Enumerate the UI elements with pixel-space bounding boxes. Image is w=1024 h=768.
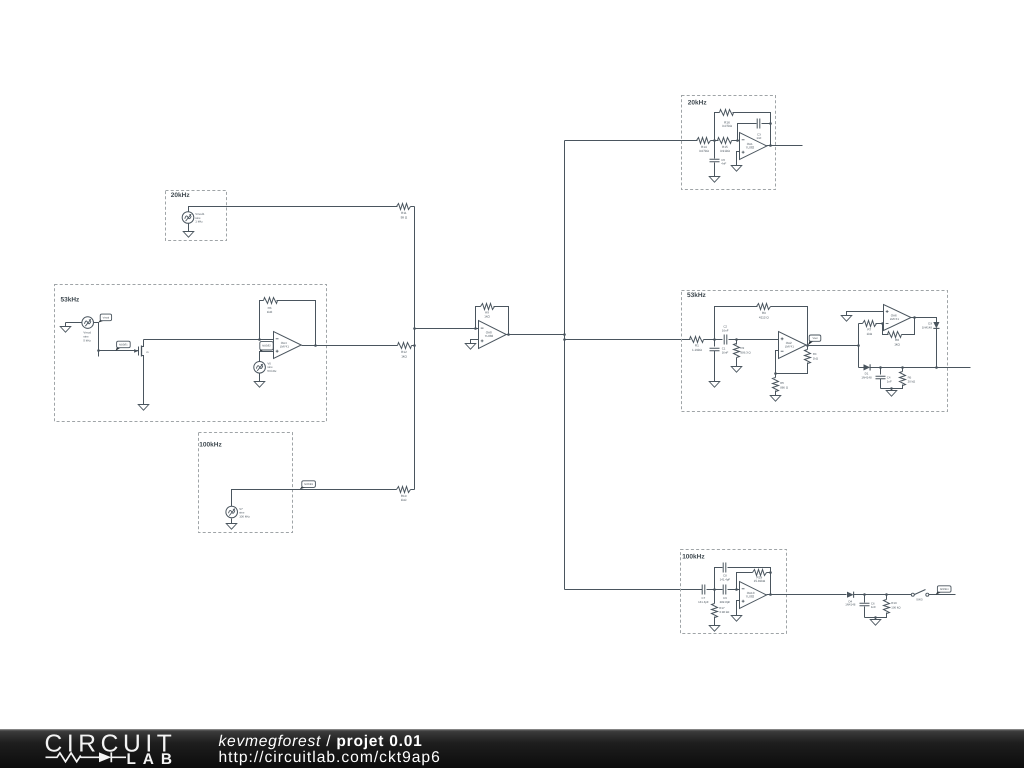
svg-text:LM741: LM741 [890, 317, 900, 321]
capacitor C3 [757, 119, 760, 129]
ground below Vmod1 [188, 224, 190, 232]
resistor R15 [718, 138, 732, 144]
wire OA6 output to D3 [911, 318, 937, 323]
resistor R11 [397, 204, 411, 210]
svg-text:16nF: 16nF [722, 329, 729, 333]
ground below C1 [709, 382, 720, 388]
svg-text:1kΩ: 1kΩ [484, 315, 490, 319]
capacitor C7 [702, 585, 705, 595]
block box 100kHz filter [681, 550, 787, 634]
wire V7 to R10 [232, 490, 397, 507]
svg-text:LM741: LM741 [280, 345, 290, 349]
resistor R12 [398, 343, 412, 349]
resistor R5 [775, 374, 777, 378]
node OA10 output [769, 593, 772, 596]
svg-text:TL082: TL082 [746, 595, 755, 599]
node junction [97, 349, 100, 352]
svg-text:282.8pF: 282.8pF [720, 600, 731, 604]
wire bus to OA8 inverting [415, 328, 479, 330]
svg-text:NODE3: NODE3 [304, 483, 313, 486]
flag NODE4 [936, 590, 942, 595]
wire C8 to output [728, 568, 771, 595]
node R18 tap [735, 588, 738, 591]
diode D1 [864, 364, 871, 370]
svg-text:3.07kΩ: 3.07kΩ [699, 149, 710, 153]
block box 53kHz filter [682, 291, 948, 412]
wire C3 to output [762, 123, 771, 125]
svg-text:1nF: 1nF [871, 605, 876, 609]
flag NODE2 [260, 348, 264, 353]
node 20k input junction [713, 139, 716, 142]
diode D3 [933, 322, 939, 328]
svg-text:1N4148: 1N4148 [922, 326, 933, 330]
block box 53kHz source [55, 285, 327, 422]
wire R8 left branch [883, 324, 889, 335]
resistor R2 [734, 344, 740, 358]
node C6 tap [863, 593, 866, 596]
capacitor C8 [723, 563, 726, 573]
svg-text:1kΩ: 1kΩ [867, 332, 873, 336]
svg-text:4113 Ω: 4113 Ω [759, 315, 770, 319]
node R6 tap [901, 366, 904, 369]
svg-text:16nF: 16nF [722, 351, 729, 355]
node bus2 53kHz tap [563, 338, 566, 341]
wire C9 to OA10 [728, 589, 740, 591]
svg-text:5 kHz: 5 kHz [83, 338, 91, 342]
op-amp OA8 [479, 321, 507, 349]
wire D1 to C4 [871, 367, 971, 369]
wire R18 branch [737, 573, 753, 590]
wire OA6 plus to ground [847, 312, 884, 316]
wire R18 to output [767, 572, 771, 574]
wire R8 right branch [902, 318, 915, 335]
wire C5 to ground [714, 163, 716, 177]
node R18 output join [769, 571, 772, 574]
transistor J1 [138, 347, 140, 356]
svg-text:100kHz: 100kHz [199, 441, 222, 448]
resistor R1 [690, 337, 704, 343]
wire OA10 plus to ground [737, 601, 740, 616]
svg-text:R1: R1 [695, 344, 699, 348]
wire OA8 output to bus2 [507, 334, 565, 336]
wire D3 to bottom line [936, 329, 938, 368]
diode D4 [847, 592, 854, 598]
node OA1 output [769, 144, 772, 147]
wire junction to R3 line [715, 307, 758, 340]
node R19 tap [885, 593, 888, 596]
svg-text:Vmod: Vmod [103, 316, 110, 319]
ground rectifier 100k [875, 618, 877, 620]
svg-text:1 kHz: 1 kHz [195, 220, 203, 224]
block box 20kHz filter [682, 96, 776, 190]
voltage source V7 [226, 506, 238, 518]
wire junction to C8 line [715, 568, 723, 590]
node C3 tap [736, 139, 739, 142]
wire R19 to bottom [865, 613, 887, 618]
svg-text:100 kHz: 100 kHz [239, 514, 250, 518]
flag NODE1 [116, 345, 121, 351]
wire Vmod1 to R11 [189, 207, 398, 212]
ground below J1 [138, 405, 149, 411]
wire bottom line left [859, 367, 864, 369]
node feedback tap [258, 338, 261, 341]
wire junction to R16 line [715, 113, 720, 141]
op-amp OA1 [740, 133, 767, 160]
svg-text:1N4148: 1N4148 [845, 603, 856, 607]
svg-text:1kΩ: 1kΩ [401, 354, 407, 358]
node OA2 output [806, 344, 809, 347]
op-amp OA6 [884, 305, 912, 331]
node feedback output join [913, 316, 916, 319]
wire ground to Vmod [66, 322, 82, 324]
wire stage2 vertical [858, 324, 860, 368]
voltage source V6 [254, 362, 266, 374]
node C4 tap [879, 366, 882, 369]
wire C7 to C9 [707, 589, 723, 591]
node 100k input junction [713, 588, 716, 591]
node bus2 output [563, 333, 566, 336]
wire R2 branch [736, 340, 738, 345]
capacitor C4 [880, 368, 882, 375]
svg-text:1kΩ: 1kΩ [401, 498, 407, 502]
wire NODE1 to J1 gate [99, 350, 139, 352]
ground rectifier [891, 389, 893, 391]
wire R4 to join [776, 363, 808, 374]
capacitor C6 [864, 595, 866, 603]
ground below R17 [709, 626, 720, 632]
svg-text:53kHz: 53kHz [687, 292, 707, 299]
wire plus input to V6 [260, 352, 274, 362]
wire OA2 minus loop [776, 351, 779, 374]
svg-text:3.91kΩ: 3.91kΩ [720, 149, 731, 153]
wire feedback R9 [476, 307, 481, 329]
op-amp OA4 [274, 332, 302, 359]
capacitor C2 [724, 335, 727, 345]
svg-text:1.19kΩ: 1.19kΩ [692, 348, 703, 352]
capacitor C1 [714, 340, 716, 347]
node ground join [890, 387, 893, 390]
resistor R3 [757, 304, 771, 310]
wire Vmod to node [94, 322, 99, 324]
op-amp OA10 [740, 582, 767, 609]
svg-text:NODE1: NODE1 [119, 343, 128, 346]
wire to R7 [859, 323, 863, 325]
resistor Rb [264, 298, 278, 304]
wire R2 to ground [736, 358, 738, 367]
svg-text:886 Ω: 886 Ω [780, 385, 789, 389]
svg-text:20kHz: 20kHz [688, 99, 708, 106]
wire R15 to OA1 [732, 140, 740, 142]
wire distribution bus vertical [564, 141, 566, 590]
flag Vmod [98, 318, 104, 322]
svg-text:NODE4: NODE4 [940, 588, 949, 591]
node stage2 input [857, 344, 860, 347]
wire R5 to ground [775, 391, 777, 396]
wire R14 to R15 [711, 140, 719, 142]
svg-text:R8: R8 [895, 338, 899, 342]
logo resistor-diode symbol [46, 753, 100, 762]
resistor R6 [902, 368, 904, 372]
svg-text:100kHz: 100kHz [682, 553, 705, 560]
ground below V6 [259, 374, 261, 382]
node OA4 output [314, 344, 317, 347]
wire OA4 output to R12 [302, 345, 398, 347]
block box 100kHz source [199, 433, 293, 533]
wire switch to NODE4 [929, 594, 956, 596]
voltage source Vmod1 [182, 212, 194, 224]
svg-text:141.4pF: 141.4pF [720, 577, 731, 581]
svg-text:53kHz: 53kHz [61, 297, 81, 304]
node bus R12 [413, 344, 416, 347]
svg-text:141.4pF: 141.4pF [698, 600, 709, 604]
node 53k input junction [713, 338, 716, 341]
flag NODE3 [300, 485, 306, 489]
wire OA1 plus to ground [737, 152, 740, 166]
svg-text:1kΩ: 1kΩ [267, 310, 273, 314]
gate arrow [134, 349, 138, 353]
ground below C5 [709, 177, 720, 183]
wire R6 to bottom [881, 385, 903, 389]
svg-text:R7: R7 [867, 327, 871, 331]
resistor R7 [863, 321, 877, 327]
svg-text:100 kΩ: 100 kΩ [891, 605, 901, 609]
svg-text:LAB: LAB [127, 751, 179, 768]
ground below R2 [731, 367, 742, 373]
ground OA1 [731, 166, 742, 172]
svg-text:SW3: SW3 [916, 598, 923, 602]
svg-text:3.98 kΩ: 3.98 kΩ [719, 610, 730, 614]
node feedback tap OA8 [474, 327, 477, 330]
node bus tap [413, 327, 416, 330]
wire feedback Rb [260, 301, 264, 340]
resistor R10 [397, 487, 411, 493]
ground OA10 [731, 616, 742, 622]
node R4 R5 join [774, 372, 777, 375]
svg-text:3.07kΩ: 3.07kΩ [722, 124, 733, 128]
wire J1 drain to op-amp [144, 339, 274, 341]
node R2 tap [735, 338, 738, 341]
wire bus2 to 53kHz filter [565, 339, 691, 341]
svg-text:http://circuitlab.com/ckt9ap6: http://circuitlab.com/ckt9ap6 [219, 749, 441, 766]
svg-text:Vout: Vout [812, 337, 817, 340]
wire R7 to OA6 minus [876, 323, 884, 325]
resistor R18 [753, 570, 767, 576]
svg-text:NODE2: NODE2 [262, 345, 271, 348]
block box 20kHz source [166, 191, 227, 241]
svg-text:886.3 Ω: 886.3 Ω [741, 350, 752, 354]
svg-text:4nF: 4nF [721, 162, 726, 166]
capacitor C9 [723, 585, 726, 595]
svg-text:53 kHz: 53 kHz [267, 369, 277, 373]
switch SW3 [911, 593, 914, 596]
svg-text:kevmegforest / projet 0.01: kevmegforest / projet 0.01 [219, 733, 423, 750]
ground below V7 [231, 519, 233, 524]
ground OA8 [465, 344, 476, 350]
wire C1 to ground [714, 351, 716, 382]
node OA8 output [507, 333, 510, 336]
ground below R5 [770, 396, 781, 402]
svg-text:1kΩ: 1kΩ [894, 343, 900, 347]
svg-text:1nF: 1nF [887, 380, 892, 384]
wire plus input to ground [471, 340, 479, 344]
wire bus2 to 20kHz filter [565, 140, 698, 142]
svg-text:15.92kΩ: 15.92kΩ [754, 579, 766, 583]
wire R17 to ground [714, 617, 716, 626]
wire node down [98, 323, 100, 357]
svg-text:1nF: 1nF [756, 136, 761, 140]
resistor R9 [481, 304, 495, 310]
wire C6 to bottom [864, 607, 866, 618]
wire R11 to bus [411, 206, 415, 208]
wire R3 to output [771, 307, 808, 346]
wire C2 to OA2 [729, 339, 779, 341]
svg-text:1kΩ: 1kΩ [813, 356, 819, 360]
resistor R14 [697, 138, 711, 144]
capacitor C5 [714, 141, 716, 159]
svg-text:TL082: TL082 [485, 334, 494, 338]
wire bus2 to 100kHz filter [565, 589, 703, 591]
svg-text:20kHz: 20kHz [171, 192, 191, 199]
resistor R4 [807, 346, 809, 350]
wire R16 to output [733, 113, 771, 146]
voltage source Vmod [82, 317, 94, 329]
ground left of Vmod [65, 323, 67, 327]
resistor R16 [720, 110, 734, 116]
wire OA2 output to stage2 [807, 345, 859, 347]
wire R9 to output [494, 307, 509, 335]
svg-text:20 kΩ: 20 kΩ [908, 380, 916, 384]
wire Rb to output [277, 301, 316, 346]
wire OA1 output stub [767, 145, 803, 147]
wire OA10 output to D4 [767, 594, 847, 596]
svg-text:99 Ω: 99 Ω [401, 215, 408, 219]
flag Vout [808, 339, 813, 345]
wire C4 to bottom [880, 379, 882, 389]
svg-text:LM741: LM741 [785, 345, 795, 349]
op-amp OA2 [779, 332, 807, 359]
wire R10 to bus [411, 489, 415, 491]
node rect ground join [874, 616, 877, 619]
resistor R8 [888, 332, 902, 338]
ground OA6 [841, 316, 852, 322]
node R8 tap [881, 322, 884, 325]
node D3 bottom [935, 366, 938, 369]
wire R12 to bus [412, 345, 415, 347]
resistor R17 [714, 590, 716, 604]
wire summing bus vertical [414, 207, 416, 490]
svg-text:TL082: TL082 [746, 146, 755, 150]
node C3 output join [769, 122, 772, 125]
resistor R19 [886, 595, 888, 600]
wire C3 branch [738, 124, 757, 141]
wire D4 to switch [854, 594, 912, 596]
wire R1 to C2 [704, 339, 723, 341]
svg-text:1N4148: 1N4148 [861, 376, 872, 380]
